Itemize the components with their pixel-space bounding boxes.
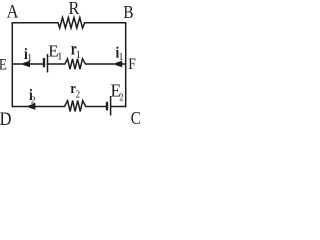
- svg-text:1: 1: [57, 51, 63, 63]
- svg-text:R: R: [69, 0, 80, 18]
- svg-text:1: 1: [119, 52, 124, 63]
- svg-text:1: 1: [76, 49, 82, 61]
- svg-text:2: 2: [31, 95, 36, 106]
- svg-text:1: 1: [27, 53, 32, 64]
- svg-text:C: C: [131, 108, 140, 126]
- svg-text:A: A: [7, 0, 19, 21]
- svg-text:D: D: [0, 108, 12, 126]
- svg-text:F: F: [128, 56, 136, 73]
- svg-text:E: E: [0, 56, 7, 73]
- svg-text:2: 2: [76, 89, 80, 101]
- svg-text:2: 2: [119, 91, 123, 103]
- svg-text:B: B: [123, 2, 133, 22]
